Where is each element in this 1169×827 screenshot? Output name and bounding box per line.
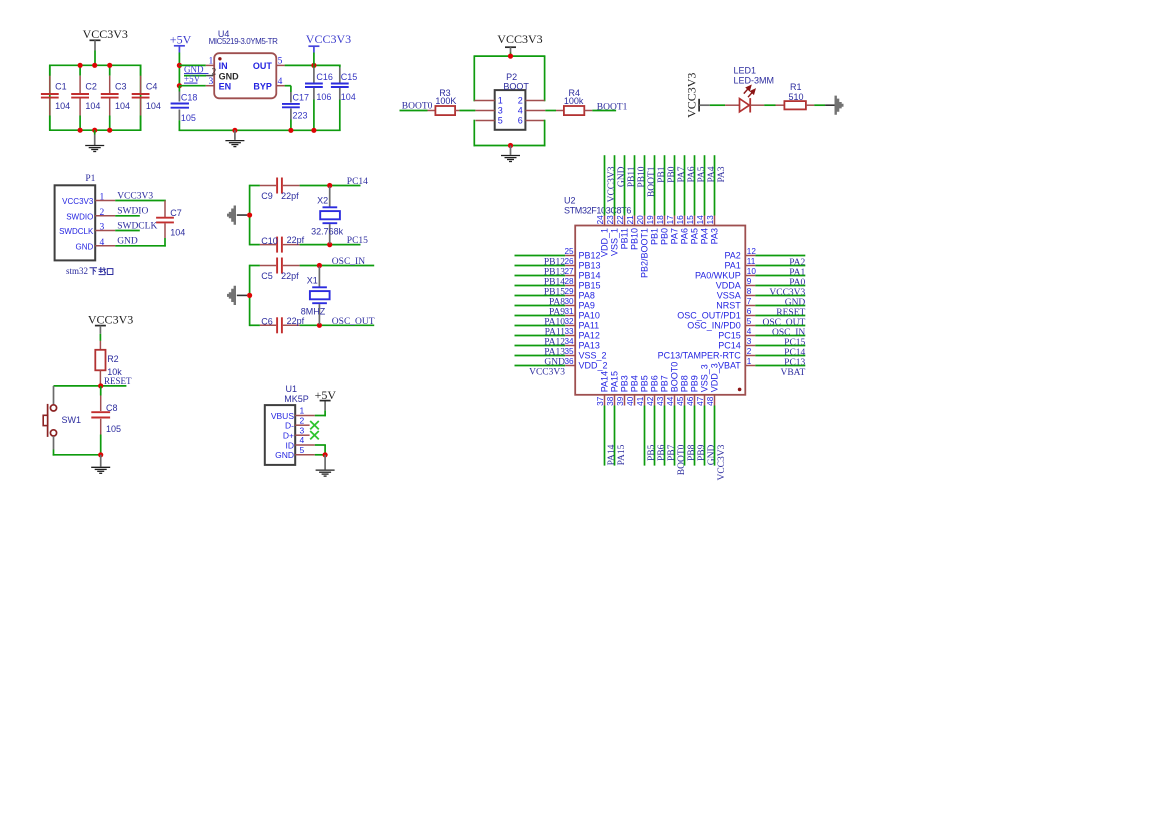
- wire C18 to bottom rail: [178, 120, 180, 131]
- wire down to C18: [178, 86, 180, 92]
- resistor R4 body: [564, 106, 584, 115]
- svg-text:1: 1: [300, 406, 305, 416]
- pin 3 of P2: [475, 110, 494, 112]
- pin 2 of C9: [283, 185, 300, 187]
- svg-text:OSC_OUT: OSC_OUT: [763, 318, 806, 328]
- svg-text:RESET: RESET: [776, 308, 805, 318]
- svg-text:NRST: NRST: [716, 301, 741, 311]
- wire to U4 pin 3: [179, 85, 205, 87]
- svg-text:VSS_1: VSS_1: [609, 228, 619, 256]
- svg-text:PA6: PA6: [687, 166, 697, 182]
- wire bottom stub C1: [49, 116, 51, 131]
- svg-text:C9: C9: [261, 191, 273, 201]
- U2 pin 26 (PB13): [515, 265, 566, 267]
- svg-text:PA0/WKUP: PA0/WKUP: [695, 271, 741, 281]
- svg-text:BYP: BYP: [253, 82, 272, 92]
- svg-text:VCC3V3: VCC3V3: [607, 166, 617, 202]
- junction bottom rail: [78, 128, 83, 133]
- svg-text:5: 5: [498, 116, 503, 126]
- svg-text:VCC3V3: VCC3V3: [769, 288, 805, 298]
- wire top stub C4: [140, 65, 142, 75]
- wire top stub C2: [79, 65, 81, 75]
- junction ground tap: [247, 293, 252, 298]
- wire left loop vertical: [473, 56, 475, 101]
- pin 2 of P2: [525, 100, 544, 102]
- crystal X1: [318, 267, 320, 287]
- svg-text:36: 36: [564, 357, 574, 366]
- wire to ground symbol: [234, 130, 236, 140]
- svg-text:4: 4: [518, 106, 523, 116]
- svg-text:U2: U2: [564, 196, 576, 206]
- pin 2 of P1: [95, 215, 115, 217]
- pin 2 of U4: [206, 75, 214, 77]
- svg-text:27: 27: [564, 267, 574, 276]
- wire bottom: [53, 454, 101, 456]
- capacitor C10 plates: [276, 237, 278, 253]
- wire SWDCLK net: [115, 230, 140, 232]
- svg-text:C7: C7: [170, 208, 182, 218]
- wire stub from VCC3V3: [94, 40, 96, 50]
- U2 pin 43 (PB7): [664, 395, 666, 406]
- svg-text:105: 105: [106, 424, 121, 434]
- svg-text:GND: GND: [275, 450, 294, 460]
- svg-text:29: 29: [564, 287, 574, 296]
- ground (arrow power port): [227, 206, 236, 225]
- wire right bottom loop: [544, 120, 546, 147]
- svg-text:LED1: LED1: [734, 66, 757, 76]
- junction top rail: [107, 63, 112, 68]
- pin 2 of R3: [455, 110, 459, 112]
- capacitor C4 plates: [132, 93, 150, 95]
- pin 1 of C7: [164, 201, 166, 218]
- pin 1 of C17: [290, 92, 292, 103]
- ground (cap bank): [85, 145, 104, 147]
- pin 2 of C2: [79, 99, 81, 116]
- svg-text:SWDCLK: SWDCLK: [59, 227, 94, 236]
- capacitor C8 plates: [91, 411, 110, 413]
- svg-text:PA11: PA11: [579, 321, 600, 331]
- svg-text:PB10: PB10: [637, 166, 647, 187]
- junction ground stub: [232, 128, 237, 133]
- U2 pin 45 (PB8): [684, 395, 686, 406]
- U2 pin 48 (VDD_3): [714, 395, 716, 406]
- wire C17 to bottom rail: [290, 120, 292, 131]
- junction ID / GND: [323, 452, 328, 457]
- wire to ground: [94, 130, 96, 134]
- U2 pin 2 (PC13/TAMPER-RTC): [745, 355, 755, 357]
- capacitor C3 plates: [101, 93, 119, 95]
- wire OSC_OUT net (bottom): [250, 324, 260, 326]
- svg-text:PB6: PB6: [649, 375, 659, 392]
- pin 1 of C9: [260, 185, 276, 187]
- junction bottom rail: [92, 128, 97, 133]
- connector P1 body: [55, 185, 96, 260]
- svg-text:3: 3: [498, 106, 503, 116]
- pin 1 of P1: [95, 200, 115, 202]
- svg-text:MIC5219-3.0YM5-TR: MIC5219-3.0YM5-TR: [209, 37, 279, 46]
- svg-text:PA7: PA7: [677, 166, 687, 182]
- wire bottom stub C2: [79, 116, 81, 131]
- svg-text:VDD_3: VDD_3: [709, 363, 719, 392]
- svg-text:VCC3V3: VCC3V3: [62, 197, 94, 206]
- wire OSC_IN net (top): [250, 265, 260, 267]
- junction PC15 / crystal: [327, 242, 332, 247]
- svg-text:PB6: PB6: [657, 444, 667, 461]
- svg-text:38: 38: [606, 396, 615, 406]
- svg-text:19: 19: [646, 215, 655, 225]
- pin 1 of R4: [556, 110, 564, 112]
- U2 pin 3 (PC14): [745, 345, 755, 347]
- pin 2 of U1: [295, 424, 309, 426]
- pin 2 of C6: [283, 324, 300, 326]
- wire stub: [699, 104, 710, 106]
- wire to arrow ground: [237, 214, 247, 216]
- svg-text:PA8: PA8: [579, 291, 595, 301]
- svg-text:PB9: PB9: [697, 444, 707, 461]
- svg-text:C6: C6: [261, 317, 273, 327]
- svg-text:PC15: PC15: [347, 236, 368, 246]
- svg-text:104: 104: [85, 101, 100, 111]
- junction bottom rail: [107, 128, 112, 133]
- svg-text:16: 16: [676, 215, 685, 225]
- svg-text:30: 30: [564, 297, 574, 306]
- svg-text:32: 32: [564, 317, 574, 326]
- LED LED1 symbol: [740, 99, 750, 112]
- svg-text:GND: GND: [707, 444, 717, 465]
- wire OSC_OUT to label: [300, 324, 375, 326]
- wire to ground: [100, 455, 102, 467]
- svg-text:100k: 100k: [564, 96, 584, 106]
- pin 3 of U4: [206, 85, 214, 87]
- svg-text:LED-3MM: LED-3MM: [734, 75, 775, 85]
- svg-text:22pf: 22pf: [287, 316, 305, 326]
- pin 4 of U1: [295, 444, 315, 446]
- svg-text:6: 6: [518, 116, 523, 126]
- pin 6 of P2: [525, 120, 544, 122]
- pin 1 of R1: [776, 104, 785, 106]
- wire ID: [315, 444, 326, 446]
- wire stub: [510, 47, 512, 52]
- svg-text:PA3: PA3: [717, 166, 727, 182]
- pin 2 of C16: [313, 88, 315, 100]
- svg-text:18: 18: [656, 215, 665, 225]
- svg-text:7: 7: [747, 297, 752, 306]
- capacitor C5 plates: [276, 258, 278, 274]
- U2 pin 15 (PA5): [694, 155, 696, 215]
- svg-text:PC14: PC14: [718, 341, 741, 351]
- pin 1 of C5: [260, 265, 276, 267]
- wire C15 to bottom rail: [339, 100, 341, 132]
- svg-text:17: 17: [666, 215, 675, 225]
- svg-text:33: 33: [564, 327, 574, 336]
- svg-text:PA0: PA0: [789, 278, 805, 288]
- U2 pin 5 (OSC_IN/PD0): [745, 325, 755, 327]
- power bar VCC3V3: [90, 39, 101, 41]
- pin 1 of U1: [295, 415, 315, 417]
- wire GND net to U4 pin 2: [184, 75, 206, 77]
- resistor R1 body: [784, 101, 806, 109]
- svg-text:VDDA: VDDA: [716, 281, 741, 291]
- U2 pin 20 (PB2/BOOT1): [644, 155, 646, 215]
- svg-text:PB7: PB7: [659, 375, 669, 392]
- junction RESET: [98, 383, 103, 388]
- LED1 cathode bar: [749, 98, 751, 112]
- ground (BOOT): [501, 155, 520, 157]
- svg-text:22pf: 22pf: [287, 235, 305, 245]
- svg-text:34: 34: [564, 337, 574, 346]
- wire GND net: [115, 245, 166, 247]
- svg-text:C8: C8: [106, 403, 118, 413]
- svg-text:100K: 100K: [435, 96, 456, 106]
- svg-text:SW1: SW1: [62, 415, 82, 425]
- U2 pin 18 (PB0): [664, 155, 666, 215]
- svg-text:48: 48: [706, 396, 715, 406]
- ground (USB): [316, 469, 335, 471]
- U2 pin 39 (PB3): [624, 395, 626, 406]
- svg-text:PB9: PB9: [689, 375, 699, 392]
- ground (reset): [91, 466, 110, 468]
- svg-text:PB15: PB15: [579, 281, 601, 291]
- wire top stub C1: [49, 65, 51, 75]
- svg-text:3: 3: [747, 337, 752, 346]
- svg-text:BOOT0: BOOT0: [669, 362, 679, 393]
- pin 3 of P1: [95, 230, 115, 232]
- svg-text:1: 1: [747, 357, 752, 366]
- svg-text:PA13: PA13: [579, 341, 600, 351]
- U2 pin 25 (PB12): [515, 255, 566, 257]
- U2 pin 32 (PA11): [515, 325, 566, 327]
- svg-text:GND: GND: [617, 166, 627, 187]
- wire stub: [99, 326, 101, 334]
- svg-text:8: 8: [747, 287, 752, 296]
- U2 pin 16 (PA6): [684, 155, 686, 215]
- svg-text:VBUS: VBUS: [271, 411, 294, 421]
- U2 pin 30 (PA9): [515, 305, 566, 307]
- svg-text:C17: C17: [293, 93, 310, 103]
- power bar VCC3V3 vertical: [698, 99, 700, 112]
- wire to U4 pin 1: [179, 64, 205, 66]
- svg-text:26: 26: [564, 257, 574, 266]
- svg-text:3: 3: [209, 77, 214, 87]
- svg-text:PA1: PA1: [724, 261, 740, 271]
- svg-text:3: 3: [300, 425, 305, 435]
- svg-text:GND: GND: [219, 72, 240, 82]
- wire left vertical: [249, 265, 251, 326]
- junction OSC_IN / crystal: [317, 263, 322, 268]
- svg-text:+5V: +5V: [184, 74, 201, 84]
- capacitor C15 plates: [331, 83, 349, 85]
- svg-text:D+: D+: [283, 431, 294, 441]
- pin 5 of P2: [475, 120, 494, 122]
- svg-text:PB4: PB4: [629, 375, 639, 392]
- svg-text:11: 11: [747, 257, 756, 266]
- power bar +5V: [320, 400, 331, 402]
- svg-text:PB8: PB8: [679, 375, 689, 392]
- wire PC14 net (top): [250, 185, 260, 187]
- U2 pin 34 (PA13): [515, 345, 566, 347]
- svg-text:47: 47: [696, 396, 705, 406]
- resistor R3 body: [435, 106, 455, 115]
- wire C8 to bottom: [100, 435, 102, 455]
- svg-text:C2: C2: [85, 82, 97, 92]
- wire RESET net: [54, 385, 127, 387]
- pin 1 of C15: [339, 68, 341, 83]
- svg-text:OSC_OUT/PD1: OSC_OUT/PD1: [677, 311, 741, 321]
- svg-text:P1: P1: [85, 174, 95, 184]
- U2 pin 8 (VSSA): [745, 295, 755, 297]
- pin 2 of C17: [290, 109, 292, 120]
- svg-text:VCC3V3: VCC3V3: [717, 444, 727, 480]
- svg-text:223: 223: [293, 111, 308, 121]
- svg-text:MK5P: MK5P: [284, 394, 309, 404]
- U2 pin 14 (PA4): [704, 155, 706, 215]
- U2 pin 38 (PA15): [614, 395, 616, 406]
- wire stub from +5V: [178, 46, 180, 53]
- svg-text:OSC_IN: OSC_IN: [332, 257, 365, 267]
- svg-text:PB11: PB11: [627, 166, 637, 187]
- svg-text:PA2: PA2: [724, 251, 740, 261]
- svg-text:15: 15: [686, 215, 695, 225]
- svg-text:31: 31: [564, 307, 574, 316]
- svg-text:R1: R1: [790, 82, 802, 92]
- pin 2 of C5: [283, 265, 300, 267]
- pin 2 of C15: [339, 88, 341, 100]
- svg-text:6: 6: [747, 307, 752, 316]
- IC U2 body: [575, 226, 745, 395]
- svg-text:PC13: PC13: [784, 358, 805, 368]
- wire right rail vertical C4: [140, 65, 142, 132]
- pin 1 of P2: [474, 100, 494, 102]
- wire stub +5V: [324, 401, 326, 411]
- svg-text:42: 42: [646, 396, 655, 406]
- U2 pin 22 (PB11): [624, 155, 626, 215]
- svg-text:1: 1: [209, 57, 214, 67]
- svg-text:PA15: PA15: [609, 371, 619, 392]
- wire OSC_IN to label: [300, 265, 375, 267]
- pin 1 of C1: [49, 76, 51, 93]
- svg-text:C4: C4: [146, 82, 158, 92]
- junction ground: [508, 143, 513, 148]
- wire down to C16: [313, 65, 315, 67]
- svg-text:OSC_OUT: OSC_OUT: [332, 317, 375, 327]
- svg-text:PB0: PB0: [667, 166, 677, 183]
- wire from SW1: [53, 436, 55, 449]
- power bar +5V: [174, 45, 185, 47]
- U2 pin 17 (PA7): [674, 155, 676, 215]
- svg-text:RESET: RESET: [104, 376, 132, 386]
- capacitor C2 plates: [71, 93, 89, 95]
- U2 pin 31 (PA10): [515, 315, 566, 317]
- wire to arrow ground: [237, 294, 247, 296]
- svg-text:41: 41: [636, 396, 645, 406]
- svg-text:22pf: 22pf: [281, 271, 299, 281]
- wire left vertical: [249, 185, 251, 246]
- caption hanzi 下载口 (drawn strokes): [90, 267, 113, 275]
- U2 pin 12 (PA2): [745, 255, 755, 257]
- svg-text:22: 22: [616, 215, 625, 225]
- U2 pin 40 (PB4): [634, 395, 636, 406]
- svg-text:PC14: PC14: [784, 348, 805, 358]
- svg-text:13: 13: [706, 215, 715, 225]
- pin 4 of P1: [95, 245, 115, 247]
- U2 pin 10 (PA0/WKUP): [745, 275, 755, 277]
- svg-text:2: 2: [300, 415, 305, 425]
- junction OUT / C16: [311, 63, 316, 68]
- wire PC15 to label: [300, 244, 361, 246]
- svg-text:PC13/TAMPER-RTC: PC13/TAMPER-RTC: [658, 351, 742, 361]
- wire bottom stub C4: [140, 116, 142, 131]
- svg-text:20: 20: [636, 215, 645, 225]
- svg-text:10: 10: [747, 267, 757, 276]
- svg-text:104: 104: [55, 101, 70, 111]
- svg-text:VBAT: VBAT: [780, 368, 805, 378]
- wire BOOT1: [592, 110, 616, 112]
- wire C7 to GND net: [164, 238, 166, 247]
- svg-text:PB5: PB5: [639, 375, 649, 392]
- U2 pin 28 (PB15): [515, 285, 566, 287]
- junction +5V / EN: [177, 83, 182, 88]
- svg-text:PB10: PB10: [629, 228, 639, 250]
- wire U4 ground rail: [179, 129, 341, 131]
- pin 1 of R2: [99, 341, 101, 350]
- wire top loop: [474, 55, 546, 57]
- wire R3 to P2: [459, 110, 475, 112]
- svg-text:BOOT: BOOT: [503, 81, 529, 91]
- svg-text:SWDIO: SWDIO: [66, 212, 93, 221]
- svg-text:VDD_2: VDD_2: [579, 361, 608, 371]
- connector P2 body: [495, 90, 526, 130]
- wire BOOT0: [400, 110, 428, 112]
- svg-text:PA7: PA7: [669, 228, 679, 244]
- switch SW1: [50, 405, 56, 411]
- capacitor C9 plates: [276, 178, 278, 194]
- wire to LED1: [710, 104, 725, 106]
- svg-text:C16: C16: [316, 72, 333, 82]
- svg-text:PB3: PB3: [619, 375, 629, 392]
- U2 pin 21 (PB10): [634, 155, 636, 215]
- wire +5V vertical: [178, 53, 180, 87]
- pin 2 of C8: [100, 419, 102, 435]
- svg-text:39: 39: [616, 396, 625, 406]
- U2 pin 47 (VSS_3): [704, 395, 706, 406]
- svg-text:46: 46: [686, 396, 695, 406]
- wire RESET to C8: [100, 386, 102, 396]
- ground (arrow power port): [835, 96, 844, 115]
- U2 pin 13 (PA3): [714, 155, 716, 215]
- svg-text:44: 44: [666, 396, 675, 406]
- svg-text:PA4: PA4: [707, 166, 717, 182]
- capacitor C1 plates: [41, 93, 59, 95]
- svg-text:PC14: PC14: [347, 177, 368, 187]
- pin 1 of C10: [260, 244, 276, 246]
- wire to ground: [324, 455, 326, 470]
- junction top rail: [92, 63, 97, 68]
- junction PC14 / crystal: [327, 183, 332, 188]
- svg-text:BOOT0: BOOT0: [677, 444, 687, 475]
- U2 pin 36 (VDD_2): [515, 365, 566, 367]
- svg-text:VCC3V3: VCC3V3: [529, 368, 565, 378]
- junction C16 / rail: [311, 128, 316, 133]
- svg-text:+5V: +5V: [170, 33, 192, 47]
- svg-text:C15: C15: [341, 72, 358, 82]
- svg-text:35: 35: [564, 347, 574, 356]
- capacitor C16 plates: [305, 83, 323, 85]
- svg-text:24: 24: [596, 215, 605, 225]
- capacitor C18 plates: [171, 103, 189, 105]
- pin 1 of C18: [178, 92, 180, 102]
- pin 5 of U4: [276, 64, 284, 66]
- U2 pin 11 (PA1): [745, 265, 755, 267]
